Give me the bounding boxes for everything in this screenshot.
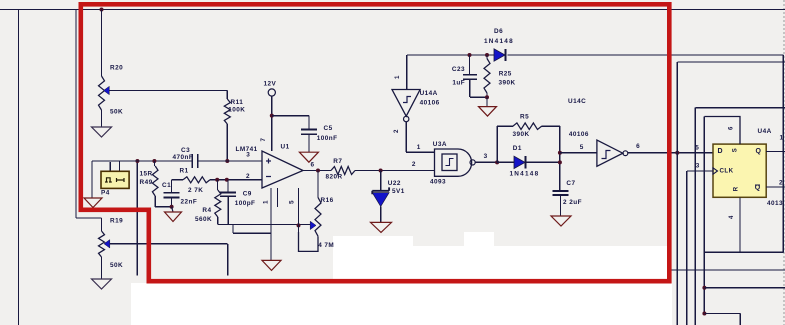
svg-text:R4: R4 [202, 207, 211, 214]
wire U3A out [475, 161, 497, 163]
label U1 [281, 144, 290, 151]
svg-text:22nF: 22nF [181, 199, 198, 206]
resistor R1 [172, 177, 262, 183]
svg-text:12V: 12V [264, 81, 277, 88]
svg-text:6: 6 [311, 162, 315, 169]
label U3A [433, 141, 447, 148]
resistor R5 [497, 123, 560, 130]
node R49 bus [152, 159, 156, 163]
capacitor C3 [192, 154, 197, 168]
node bus drop [135, 159, 139, 163]
wire R16 top [317, 171, 319, 198]
label pin1 rot [263, 200, 270, 204]
svg-text:7: 7 [260, 138, 267, 142]
svg-text:CLK: CLK [720, 168, 734, 175]
node U14C in [558, 151, 562, 155]
wire opamp pin5 [298, 188, 300, 232]
svg-text:2: 2 [412, 161, 416, 168]
label pin3 [246, 152, 250, 159]
label U14A [420, 90, 438, 97]
wire input bus right [198, 160, 262, 162]
label U3A pin1 [417, 144, 421, 151]
node R20 top [100, 8, 104, 12]
svg-text:U22: U22 [388, 180, 401, 187]
wire R19 bottom [101, 257, 103, 279]
wire R11 bottom [226, 124, 228, 161]
wire right edge drop [782, 55, 784, 252]
label pin5 rot [289, 200, 296, 204]
label R5 [520, 114, 529, 121]
label LM741 [236, 146, 258, 153]
svg-text:R: R [734, 186, 740, 191]
svg-text:C1: C1 [162, 182, 171, 189]
label U14A pin1 [394, 75, 401, 79]
svg-text:100nF: 100nF [317, 135, 338, 142]
label D6 1N4148 [484, 38, 514, 45]
svg-text:4 7M: 4 7M [318, 242, 334, 249]
node C9 top [225, 178, 229, 182]
svg-text:2 2uF: 2 2uF [563, 199, 582, 206]
node row3 [702, 312, 706, 316]
label U4A [758, 128, 772, 135]
label R pin4 [729, 215, 735, 219]
label 100pF [235, 200, 256, 207]
label U3A pin3 [484, 153, 488, 160]
label D1 [513, 145, 522, 152]
wire R5 right drop [559, 126, 561, 191]
label R4 [202, 207, 211, 214]
svg-text:C5: C5 [324, 125, 333, 132]
svg-text:C3: C3 [181, 147, 190, 154]
wire feedback rail [218, 224, 310, 226]
svg-text:C7: C7 [566, 180, 575, 187]
label C1 [162, 182, 171, 189]
diode U22 zener [372, 171, 389, 207]
ground R19 [92, 279, 112, 289]
wire wiper drop [227, 244, 229, 276]
label D pin5 [695, 145, 699, 152]
label CLK pin3 [696, 162, 700, 169]
capacitor C23 [463, 55, 487, 97]
svg-text:Q: Q [755, 185, 761, 192]
svg-text:R16: R16 [321, 197, 334, 204]
svg-text:40106: 40106 [569, 131, 589, 138]
resistor R7 [331, 167, 355, 175]
resistor R20 [99, 76, 110, 110]
node out [316, 169, 320, 173]
svg-text:4093: 4093 [430, 179, 446, 186]
svg-text:100pF: 100pF [235, 200, 256, 207]
svg-text:C23: C23 [452, 66, 465, 73]
node D1 right [558, 160, 562, 164]
label R20 [110, 65, 123, 72]
label D6 [494, 28, 503, 35]
svg-text:820R: 820R [326, 174, 343, 181]
svg-text:R19: R19 [110, 218, 123, 225]
diode D1 [514, 156, 526, 168]
svg-text:560K: 560K [195, 216, 212, 223]
wire U14C in [560, 152, 597, 154]
resistor R16 [310, 197, 321, 236]
svg-text:3: 3 [484, 153, 488, 160]
highlight border [79, 2, 672, 284]
resistor R4 [215, 180, 221, 225]
node C23 top [468, 53, 472, 57]
svg-text:470nF: 470nF [173, 154, 194, 161]
wire R5 left [496, 126, 498, 162]
svg-text:1N4148: 1N4148 [484, 38, 514, 45]
label 470nF [173, 154, 194, 161]
svg-text:2: 2 [393, 129, 400, 133]
label R49 [140, 179, 153, 186]
label C7 [566, 180, 575, 187]
wire opamp pin4 [270, 188, 272, 260]
power 12V [264, 81, 277, 96]
label U14C [568, 98, 586, 105]
wire D6 net left [407, 54, 494, 56]
svg-text:100K: 100K [228, 106, 245, 113]
svg-text:4013: 4013 [767, 200, 783, 207]
label R16 [321, 197, 334, 204]
svg-text:1: 1 [263, 200, 270, 204]
ground opamp [262, 260, 281, 270]
svg-text:50K: 50K [110, 262, 123, 269]
label 560K [195, 216, 212, 223]
svg-text:6: 6 [729, 126, 735, 130]
ground C7 [551, 216, 571, 226]
wire second vertical [75, 10, 77, 219]
wire C1 gnd stem [172, 207, 173, 212]
label 4013 [767, 200, 783, 207]
label 390K R25 [499, 80, 516, 87]
label 40106 U14C [569, 131, 589, 138]
connector P4 [101, 171, 129, 188]
resistor R25 [484, 55, 490, 97]
svg-text:1uF: 1uF [452, 80, 465, 87]
ground U22 [371, 222, 392, 232]
svg-text:R20: R20 [110, 65, 123, 72]
svg-text:4: 4 [729, 215, 735, 219]
wire R19 wiper [110, 243, 228, 245]
window edge [783, 0, 785, 325]
label R19 [110, 218, 123, 225]
label 5V1 [392, 188, 405, 195]
svg-text:Q: Q [756, 148, 762, 155]
svg-text:R1: R1 [180, 168, 189, 175]
resistor R11 [224, 99, 230, 124]
node 12V [270, 114, 274, 118]
svg-text:U4A: U4A [758, 128, 772, 135]
label 390K R5 [513, 131, 530, 138]
label C23 [452, 66, 465, 73]
wire to R19 [76, 217, 102, 219]
capacitor C7 [552, 191, 568, 216]
wire opamp pin1 stub [277, 188, 279, 207]
wire 12V lead [271, 96, 273, 151]
wire bottom row3 [704, 314, 740, 325]
wire R19 top lead [101, 218, 103, 231]
ground C5 [299, 152, 318, 162]
wire R20 bottom [101, 110, 103, 127]
label 2.7K [188, 187, 203, 194]
wire 12V to C5 [272, 115, 309, 117]
svg-text:15R: 15R [140, 171, 153, 178]
wire S path [704, 117, 740, 145]
label 2.2uF [563, 199, 582, 206]
svg-text:R7: R7 [333, 158, 342, 165]
ground P4 [84, 198, 102, 208]
svg-text:5V1: 5V1 [392, 188, 405, 195]
label 50K R19 [110, 262, 123, 269]
svg-text:2 7K: 2 7K [188, 187, 203, 194]
wire P4 ground path [92, 161, 120, 198]
label C9 [243, 191, 252, 198]
nand U3A [435, 149, 476, 176]
svg-text:R5: R5 [520, 114, 529, 121]
svg-text:390K: 390K [499, 80, 516, 87]
wire vert B [686, 171, 688, 325]
node C1 ground [170, 205, 174, 209]
label Qbar pin2 [779, 180, 783, 187]
ground R25 [479, 107, 497, 117]
wire U14A pin1 [406, 55, 408, 90]
label S pin6 [729, 126, 735, 130]
label pin2 [246, 173, 250, 180]
svg-text:50K: 50K [110, 109, 123, 116]
node U14C out [675, 151, 679, 155]
label P4 [101, 190, 110, 197]
label C3 [181, 147, 190, 154]
svg-text:3: 3 [246, 152, 250, 159]
diode D6 [494, 49, 506, 61]
ground C1 [165, 212, 182, 222]
wire U22 gnd [380, 207, 382, 223]
capacitor C9 [220, 180, 236, 225]
svg-text:D6: D6 [494, 28, 503, 35]
svg-text:5: 5 [580, 144, 584, 151]
label 15R [140, 171, 153, 178]
svg-text:R25: R25 [499, 71, 512, 78]
label 4.7M [318, 242, 334, 249]
wire vert C [695, 108, 785, 325]
label 100nF [317, 135, 338, 142]
resistor R49 [152, 161, 171, 207]
wire CLK [687, 170, 713, 172]
wire R path [704, 197, 783, 252]
wire bottom row2 [704, 287, 785, 289]
inverter U14A [392, 90, 420, 122]
node R4 top [215, 178, 219, 182]
node U22 tap [379, 169, 383, 173]
wire bottom row1 [671, 269, 785, 271]
node pin5 rail [297, 223, 301, 227]
wire Qbar out [766, 186, 785, 188]
resistor R19 [99, 231, 110, 257]
wire D1 row [497, 161, 514, 163]
svg-text:3: 3 [696, 162, 700, 169]
wire out right [355, 170, 435, 172]
svg-text:U3A: U3A [433, 141, 447, 148]
svg-text:1: 1 [780, 135, 784, 142]
label U22 [388, 180, 401, 187]
svg-text:390K: 390K [513, 131, 530, 138]
capacitor C1 [164, 180, 180, 207]
svg-text:D: D [718, 148, 724, 155]
wire R20 wiper [109, 90, 227, 92]
wire vert A [677, 62, 785, 325]
capacitor C5 [301, 116, 317, 153]
label 50K [110, 109, 123, 116]
wire R11 top [226, 91, 228, 100]
label R7 [333, 158, 342, 165]
label U14A pin2 [393, 129, 400, 133]
svg-text:R11: R11 [231, 99, 244, 106]
svg-text:U14C: U14C [568, 98, 586, 105]
wire D1 right [526, 161, 560, 163]
svg-text:P4: P4 [101, 190, 110, 197]
wire D6 net right [508, 54, 784, 56]
wire R20 top lead [101, 10, 103, 77]
svg-text:5: 5 [289, 200, 296, 204]
wire bus drop [136, 161, 138, 276]
label U14C pin6 [636, 143, 640, 150]
label 820R [326, 174, 343, 181]
label R25 [499, 71, 512, 78]
wire U14C out [628, 152, 713, 154]
svg-text:1: 1 [417, 144, 421, 151]
label R1 [180, 168, 189, 175]
wire opamp out [303, 170, 331, 172]
wire R16 bottom hook [299, 232, 319, 251]
label R11 [231, 99, 244, 106]
wire vert D [703, 117, 705, 314]
svg-text:U14A: U14A [420, 90, 438, 97]
svg-text:2: 2 [246, 173, 250, 180]
wire input bus [92, 160, 192, 162]
label 40106 U14A [420, 100, 440, 107]
label C5 [324, 125, 333, 132]
svg-text:2: 2 [779, 180, 783, 187]
svg-text:D1: D1 [513, 145, 522, 152]
svg-text:6: 6 [636, 143, 640, 150]
label 22nF [181, 199, 198, 206]
label D1 1N4148 [510, 171, 540, 178]
wire Q out [766, 151, 785, 153]
svg-text:1: 1 [394, 75, 401, 79]
label 4093 [430, 179, 446, 186]
svg-text:R49: R49 [140, 179, 153, 186]
svg-text:1N4148: 1N4148 [510, 171, 540, 178]
node U3A out [495, 160, 499, 164]
label U14C pin5 [580, 144, 584, 151]
label pin6 [311, 162, 315, 169]
wire top bus [0, 9, 785, 11]
inverter U14C [597, 140, 628, 166]
svg-text:40106: 40106 [420, 100, 440, 107]
node R11 bus [225, 159, 229, 163]
wire rail jog [233, 225, 271, 234]
label Q pin1 [780, 135, 784, 142]
svg-text:U1: U1 [281, 144, 290, 151]
op-amp U1 [262, 151, 303, 188]
label U3A pin2 [412, 161, 416, 168]
wire R25 gnd [486, 97, 488, 106]
label 100K [228, 106, 245, 113]
label 1uF [452, 80, 465, 87]
wire U14A pin2 [406, 122, 434, 153]
node row2 [702, 286, 706, 290]
node R25 top [485, 53, 489, 57]
wire left vertical [18, 10, 20, 325]
flip-flop U4A [713, 144, 766, 197]
ground R20 [92, 127, 112, 137]
svg-text:C9: C9 [243, 191, 252, 198]
label pin7 [260, 138, 267, 142]
svg-text:S: S [732, 148, 738, 152]
svg-text:5: 5 [695, 145, 699, 152]
node R25 bottom [485, 95, 489, 99]
